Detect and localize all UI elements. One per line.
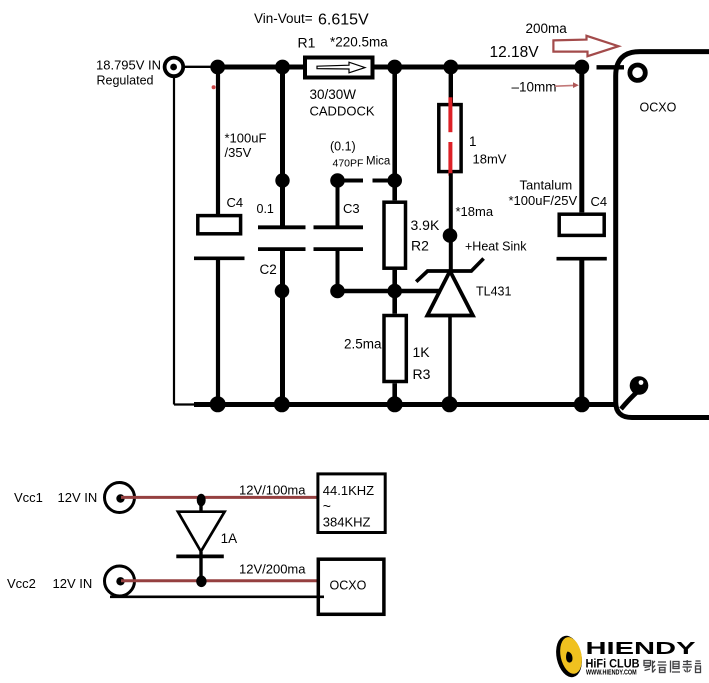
svg-text:TL431: TL431 (476, 284, 511, 298)
wire R2-R3 (392, 270, 397, 314)
svg-text:12V/200ma: 12V/200ma (239, 562, 306, 577)
svg-text:R1: R1 (298, 35, 316, 51)
wire connector to node (185, 66, 217, 68)
svg-text:18.795V IN: 18.795V IN (96, 58, 161, 73)
svg-text:Vin-Vout=: Vin-Vout= (254, 11, 313, 26)
junction node D (443, 60, 458, 75)
svg-text:R2: R2 (411, 238, 429, 254)
svg-text:*18ma: *18ma (456, 204, 494, 219)
wire dash to OCXO (597, 65, 625, 69)
wire top rail left (215, 65, 305, 70)
wire left vertical (input) (173, 77, 175, 405)
glyph 2 (658, 661, 666, 663)
junction rail 5 (574, 396, 590, 412)
capacitor C3 plates (314, 225, 364, 229)
red trace lower (448, 142, 452, 176)
svg-text:CADDOCK: CADDOCK (310, 103, 375, 118)
glyph 3 (670, 661, 672, 673)
wire fuse to TL431 (449, 173, 453, 271)
diode D1 (199, 500, 202, 512)
svg-text:/35V: /35V (225, 145, 252, 160)
junction ref node (387, 284, 402, 299)
svg-text:Tantalum: Tantalum (520, 177, 573, 192)
junction on TL431 branch (443, 228, 458, 243)
connector Vcc2 (105, 566, 135, 596)
capacitor C4 (100uF/35V) top electrode (198, 216, 241, 234)
svg-text:200ma: 200ma (526, 21, 568, 36)
current arrow 200ma (553, 36, 618, 56)
wire C4 branch lower (216, 258, 220, 404)
box OCXO (bottom) (318, 559, 384, 614)
wire tantalum branch lower (579, 259, 584, 405)
svg-text:C3: C3 (343, 201, 360, 216)
svg-text:C2: C2 (260, 262, 277, 277)
svg-text:12V IN: 12V IN (58, 490, 98, 505)
svg-text:Mica: Mica (366, 156, 391, 168)
pin (OCXO bottom) (630, 376, 649, 395)
logo mark (speaker) (553, 633, 586, 679)
svg-text:C4: C4 (227, 195, 244, 210)
wire TL431 anode (448, 316, 452, 405)
junction on C2 branch (275, 284, 290, 299)
artifact red dot (212, 85, 216, 89)
svg-text:1A: 1A (221, 531, 238, 546)
svg-text:~: ~ (323, 498, 331, 514)
junction node A (210, 60, 225, 75)
wire C4 branch upper (216, 67, 220, 214)
capacitor C4 tantalum bottom electrode (557, 257, 607, 261)
svg-text:OCXO: OCXO (330, 578, 367, 592)
wire fuse branch top (449, 67, 453, 103)
wire C3 upper (336, 181, 340, 228)
pointer line red (555, 84, 574, 87)
svg-text:30/30W: 30/30W (310, 87, 357, 102)
svg-text:R3: R3 (413, 366, 431, 382)
glyph 5 (696, 660, 701, 662)
svg-text:1: 1 (469, 134, 477, 149)
svg-text:1K: 1K (413, 344, 431, 360)
svg-text:–10mm: –10mm (512, 80, 557, 95)
junction node E (12.18V) (574, 60, 589, 75)
red trace upper (448, 97, 452, 132)
svg-text:Regulated: Regulated (97, 74, 154, 88)
svg-text:3.9K: 3.9K (411, 217, 440, 233)
wire top rail right (373, 65, 585, 70)
junction node B (275, 60, 290, 75)
svg-text:470PF: 470PF (333, 158, 364, 170)
wire 470PF left segment (338, 179, 364, 183)
resistor R2 (384, 202, 406, 268)
svg-text:2.5ma: 2.5ma (344, 337, 382, 352)
junction node C (387, 60, 402, 75)
svg-text:*220.5ma: *220.5ma (330, 35, 388, 50)
wire R3 bottom (392, 383, 397, 404)
bottom rail thin (174, 403, 196, 405)
wire 470PF right segment (373, 179, 397, 183)
fuse body F1 (439, 105, 461, 172)
svg-text:12.18V: 12.18V (490, 44, 540, 61)
svg-text:18mV: 18mV (473, 151, 507, 166)
TL431 U1 cathode bar (416, 259, 483, 282)
wire tantalum branch upper (579, 67, 584, 212)
wire C2 branch upper (280, 67, 285, 226)
junction C3 top (330, 173, 345, 188)
svg-text:384KHZ: 384KHZ (323, 515, 371, 530)
svg-text:0.1: 0.1 (257, 202, 274, 216)
capacitor C2 plates (258, 225, 306, 229)
connector Vcc1 (105, 483, 135, 513)
red wire Vcc2 (121, 579, 317, 582)
TL431 U1 triangle (427, 271, 473, 316)
svg-text:12V IN: 12V IN (53, 576, 93, 591)
red wire Vcc1 (121, 496, 317, 499)
glyph 4 (683, 661, 692, 663)
svg-text:Vcc1: Vcc1 (14, 490, 43, 505)
svg-text:+Heat Sink: +Heat Sink (465, 239, 527, 253)
bottom rail (194, 402, 617, 407)
OCXO module outline (616, 52, 709, 418)
box 44.1KHZ-384KHZ (318, 474, 385, 533)
svg-text:*100uF: *100uF (225, 131, 267, 146)
junction rail 2 (274, 396, 290, 412)
glyph 1 (644, 661, 651, 666)
junction rail 3 (387, 396, 403, 412)
junction R2 top (470PF) (387, 173, 402, 188)
capacitor C4 tantalum top electrode (559, 214, 604, 235)
pin (OCXO top) (630, 65, 645, 80)
resistor R3 (384, 316, 406, 382)
junction diode top (197, 494, 206, 507)
junction C3 bottom (330, 284, 345, 299)
wire C2 branch lower (280, 249, 285, 405)
junction rail 4 (442, 396, 458, 412)
junction rail 1 (210, 396, 226, 412)
svg-text:6.615V: 6.615V (318, 12, 369, 29)
svg-text:Vcc2: Vcc2 (7, 576, 36, 591)
logo text CJK (影音俱樂部) (644, 660, 701, 673)
connector J1 (18.795V input) (165, 58, 184, 77)
svg-text:HIENDY: HIENDY (586, 638, 697, 658)
svg-text:12V/100ma: 12V/100ma (239, 483, 306, 498)
svg-text:HiFi CLUB: HiFi CLUB (586, 658, 640, 670)
reference wire (338, 289, 442, 293)
junction diode bottom (196, 576, 206, 588)
svg-text:44.1KHZ: 44.1KHZ (323, 483, 374, 498)
svg-text:OCXO: OCXO (640, 101, 677, 115)
svg-text:*100uF/25V: *100uF/25V (509, 193, 578, 208)
wire R2 branch upper (392, 67, 397, 200)
junction on C2 branch upper (275, 173, 289, 187)
capacitor C4 bottom electrode (194, 256, 245, 260)
svg-text:WWW.HIENDY.COM: WWW.HIENDY.COM (586, 670, 637, 677)
svg-text:(0.1): (0.1) (330, 140, 356, 154)
ground wire (110, 595, 324, 598)
wire C3 lower (336, 249, 340, 291)
resistor R1 (305, 58, 373, 78)
svg-text:C4: C4 (591, 194, 608, 209)
